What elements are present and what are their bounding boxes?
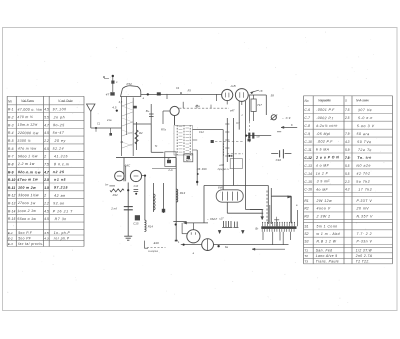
svg-text:82o.o.m ½w: 82o.o.m ½w [18, 170, 41, 174]
svg-text:S3: S3 [304, 240, 308, 244]
svg-text:4 o MF: 4 o MF [316, 164, 330, 168]
svg-text:V̶a̶l̶ E̶v̶n̶s: V̶a̶l̶ E̶v̶n̶s [21, 99, 34, 103]
svg-text:C12: C12 [199, 130, 204, 134]
svg-text:4.5: 4.5 [44, 108, 49, 112]
svg-text:4.7: 4.7 [44, 123, 49, 127]
svg-text:4.5: 4.5 [44, 131, 49, 135]
svg-text:56oo 1 ½w: 56oo 1 ½w [18, 154, 38, 158]
svg-text:R-12: R-12 [8, 194, 16, 198]
svg-text:97,100: 97,100 [53, 107, 67, 111]
svg-text:E16: E16 [154, 241, 160, 245]
svg-text:2: 2 [43, 194, 46, 198]
svg-text:R-6: R-6 [8, 147, 14, 151]
svg-text:fac tal provis.: fac tal provis. [18, 242, 43, 246]
svg-text:C10: C10 [276, 158, 282, 162]
svg-text:+DR: +DR [219, 164, 224, 167]
svg-text:72a Te: 72a Te [358, 148, 372, 152]
svg-text:R.B 1 2 W: R.B 1 2 W [317, 240, 337, 244]
svg-text:4.7: 4.7 [43, 170, 49, 174]
svg-text:n2 25: n2 25 [53, 170, 65, 174]
svg-text:1o- ph.P: 1o- ph.P [54, 231, 71, 235]
svg-text:4.5: 4.5 [44, 209, 49, 213]
svg-text:← C 9: ← C 9 [282, 116, 291, 120]
svg-text:S2: S2 [304, 232, 308, 236]
svg-text:2n0 2-7A: 2n0 2-7A [355, 254, 373, 258]
svg-text:C-15: C-15 [304, 180, 312, 184]
svg-text:470 m ½: 470 m ½ [17, 115, 33, 119]
svg-text:3 5 mF: 3 5 mF [317, 179, 331, 183]
svg-text:2W 12w: 2W 12w [316, 199, 333, 203]
svg-text:R13: R13 [180, 191, 186, 195]
svg-text:41.315: 41.315 [54, 154, 68, 158]
svg-text:B+: B+ [146, 109, 150, 113]
svg-text:R6: R6 [197, 167, 201, 171]
svg-text:5.5: 5.5 [345, 172, 350, 176]
svg-text:San. Fed: San. Fed [316, 249, 333, 253]
svg-text:5oo P.F: 5oo P.F [18, 231, 33, 235]
svg-text:6 5 MA: 6 5 MA [316, 148, 330, 152]
svg-text:5·oo 3 V: 5·oo 3 V [357, 124, 375, 128]
svg-text:P.33T V: P.33T V [357, 199, 373, 203]
svg-text:7.7· 2 2: 7.7· 2 2 [357, 232, 373, 236]
svg-text:C-12: C-12 [304, 156, 312, 160]
svg-text:2-ta: 2-ta [106, 118, 112, 122]
svg-text:2.2: 2.2 [43, 139, 49, 143]
svg-text:R2: R2 [304, 207, 308, 211]
svg-text:7.5: 7.5 [345, 108, 350, 112]
svg-text:17 7h2: 17 7h2 [358, 188, 372, 192]
svg-text:C-14: C-14 [304, 172, 312, 176]
svg-text:2.3: 2.3 [344, 180, 350, 184]
svg-text:2.2: 2.2 [43, 202, 49, 206]
svg-text:47,000 o. ½w: 47,000 o. ½w [18, 108, 43, 112]
svg-text:R-14: R-14 [8, 209, 16, 213]
svg-text:w-wapwa: w-wapwa [148, 250, 159, 253]
svg-text:56oo o 1w: 56oo o 1w [17, 217, 36, 221]
svg-text:7.5·: 7.5· [345, 132, 351, 136]
svg-text:5.5·: 5.5· [345, 148, 351, 152]
svg-text:R-7: R-7 [8, 155, 14, 159]
svg-text:47a: 47a [195, 104, 200, 108]
svg-text:6.5: 6.5 [44, 147, 49, 151]
svg-text:42 an: 42 an [54, 194, 66, 198]
svg-text:Tn. tre: Tn. tre [357, 156, 372, 160]
svg-text:S: S [345, 99, 347, 103]
svg-text:R-15: R-15 [8, 217, 16, 221]
svg-text:1ooo 2 1w: 1ooo 2 1w [17, 209, 36, 213]
svg-text:4-2u½ corn: 4-2u½ corn [316, 124, 338, 128]
svg-text:T2: T2 [304, 254, 308, 258]
svg-text:R1: R1 [304, 199, 308, 203]
svg-text:R-5: R-5 [8, 139, 14, 143]
svg-text:R14: R14 [148, 224, 154, 228]
svg-text:V̶a̶p̶a̶c̶i̶t̶o: V̶a̶p̶a̶c̶i̶t̶o [318, 99, 331, 103]
svg-text:E-2: E-2 [8, 237, 13, 241]
svg-text:R12: R12 [113, 193, 119, 197]
svg-text:Lano Alve 9: Lano Alve 9 [316, 254, 338, 258]
svg-text:2 o o P O N: 2 o o P O N [315, 155, 339, 159]
svg-text:Trans. Paule: Trans. Paule [316, 260, 339, 264]
svg-text:c8: c8 [260, 89, 263, 93]
svg-text:.002 P.F: .002 P.F [317, 140, 333, 144]
svg-text:33ooo 1½w: 33ooo 1½w [18, 193, 39, 197]
svg-text:97.215: 97.215 [54, 186, 68, 190]
svg-text:R3: R3 [304, 214, 308, 218]
svg-text:C-6: C-6 [304, 108, 310, 112]
svg-text:4.5: 4.5 [44, 217, 49, 221]
svg-text:2.5: 2.5 [344, 116, 350, 120]
svg-text:5.5: 5.5 [345, 164, 350, 168]
svg-text:R16: R16 [202, 167, 207, 171]
svg-text:8o-25: 8o-25 [53, 123, 65, 127]
svg-text:.05 Mpl: .05 Mpl [316, 132, 330, 136]
svg-text:C-13: C-13 [304, 164, 312, 168]
svg-text:T2 T22.: T2 T22. [356, 260, 370, 264]
svg-text:20 mV: 20 mV [356, 207, 370, 211]
svg-text:5o 7h2: 5o 7h2 [356, 180, 370, 184]
svg-text:47o m ½w: 47o m ½w [18, 147, 37, 151]
svg-text:4ooo V: 4ooo V [317, 207, 331, 211]
svg-text:6V6: 6V6 [218, 185, 224, 189]
svg-text:52.24: 52.24 [53, 147, 65, 151]
svg-text:R-11: R-11 [8, 186, 15, 190]
svg-text:2 3W 2: 2 3W 2 [316, 214, 331, 218]
svg-text:w 1 m - Abd: w 1 m - Abd [317, 232, 340, 236]
svg-text:.0002 P.t: .0002 P.t [316, 116, 334, 120]
svg-text:2.2 m 1w: 2.2 m 1w [17, 162, 35, 166]
svg-text:27ooo 1w: 27ooo 1w [17, 201, 36, 205]
svg-text:R-10: R-10 [8, 178, 16, 182]
svg-text:T3: T3 [304, 260, 308, 264]
svg-text:.0001 P.F: .0001 P.F [316, 108, 335, 112]
svg-text:42 7h2: 42 7h2 [356, 172, 370, 176]
svg-text:b+: b+ [105, 183, 109, 187]
svg-text:10m.a 12w: 10m.a 12w [18, 123, 38, 127]
svg-text:C13: C13 [134, 185, 139, 188]
svg-text:c8: c8 [257, 135, 260, 139]
svg-text:R-4: R-4 [8, 131, 14, 135]
svg-text:R-2: R-2 [8, 116, 14, 120]
svg-text:P 16 21 T: P 16 21 T [53, 209, 73, 213]
svg-text:R7a: R7a [161, 128, 166, 132]
svg-text:E-3: E-3 [8, 242, 13, 246]
svg-text:4.5: 4.5 [112, 106, 117, 110]
svg-text:47: 47 [106, 92, 110, 96]
svg-text:4,5: 4,5 [119, 100, 123, 104]
svg-text:R-9: R-9 [8, 170, 14, 174]
svg-text:C-9: C-9 [304, 132, 310, 136]
svg-text:R2: R2 [139, 131, 143, 135]
svg-text:c17: c17 [219, 217, 224, 221]
svg-text:R-13: R-13 [8, 202, 16, 206]
svg-text:C7: C7 [236, 121, 240, 125]
svg-text:R-3: R-3 [8, 123, 14, 127]
svg-text:5oo PF: 5oo PF [18, 237, 32, 241]
svg-text:V̶ a̶d̶ O̶s̶t̶o: V̶ a̶d̶ O̶s̶t̶o [58, 99, 73, 103]
svg-text:2n ph: 2n ph [53, 115, 66, 119]
svg-text:n1 n5: n1 n5 [54, 178, 66, 182]
svg-text:5-0 e.n: 5-0 e.n [358, 116, 373, 120]
svg-text:4.5: 4.5 [44, 231, 49, 235]
svg-text:a47: a47 [230, 109, 235, 113]
svg-text:T1: T1 [304, 249, 308, 253]
svg-text:50 TVe: 50 TVe [357, 140, 371, 144]
svg-text:P-33n V: P-33n V [357, 240, 373, 244]
svg-text:R-1: R-1 [8, 108, 14, 112]
svg-text:5.5: 5.5 [44, 116, 49, 120]
svg-text:ror ph.P: ror ph.P [54, 237, 70, 241]
svg-text:1/2 3T.W: 1/2 3T.W [356, 249, 373, 253]
svg-text:100 m 2w: 100 m 2w [18, 186, 36, 190]
svg-text:S1: S1 [304, 225, 308, 229]
svg-text:307 Ve: 307 Ve [358, 108, 372, 112]
svg-text:R-8: R-8 [8, 162, 14, 166]
svg-text:717: 717 [257, 103, 262, 107]
svg-text:47oo m 1w: 47oo m 1w [16, 177, 38, 181]
svg-text:6AC: 6AC [125, 164, 132, 168]
svg-text:8 n.c.m: 8 n.c.m [54, 162, 69, 166]
svg-text:N0 a2e: N0 a2e [356, 164, 371, 168]
svg-text:5o-47: 5o-47 [53, 131, 65, 135]
svg-text:4o MF: 4o MF [316, 188, 328, 192]
svg-text:R7 3n: R7 3n [55, 217, 67, 221]
svg-text:220000 ½w: 220000 ½w [17, 131, 39, 135]
svg-text:7.5: 7.5 [44, 162, 49, 166]
svg-text:C-16: C-16 [304, 188, 312, 192]
svg-text:1.5: 1.5 [44, 186, 49, 190]
svg-text:Inpuyler c.r: Inpuyler c.r [218, 168, 230, 171]
svg-text:N.35T V: N.35T V [357, 214, 374, 218]
svg-text:20 ey: 20 ey [54, 139, 66, 143]
svg-text:A.B: A.B [230, 84, 236, 88]
svg-text:50 ara: 50 ara [357, 132, 370, 136]
svg-text:← 6SA7: ← 6SA7 [207, 217, 218, 221]
svg-text:E-1: E-1 [8, 231, 13, 235]
svg-text:4.3: 4.3 [44, 237, 49, 241]
svg-text:C-8: C-8 [304, 124, 310, 128]
svg-text:C15: C15 [133, 222, 139, 226]
svg-text:P.M: P.M [127, 82, 132, 86]
svg-text:2.5: 2.5 [43, 178, 49, 182]
svg-text:No: No [8, 99, 12, 103]
svg-text:4.3: 4.3 [345, 140, 350, 144]
svg-text:N̶ A̶ s̶o̶l̶.̶v: N̶ A̶ s̶o̶l̶.̶v [356, 99, 369, 103]
svg-text:1o 2 F: 1o 2 F [316, 172, 329, 176]
svg-text:4.3: 4.3 [345, 188, 350, 192]
svg-text:3300 ½: 3300 ½ [17, 139, 31, 143]
svg-text:C-7: C-7 [304, 116, 310, 120]
svg-text:C-10: C-10 [304, 140, 312, 144]
svg-text:2: 2 [43, 155, 46, 159]
svg-text:C-11: C-11 [304, 148, 311, 152]
svg-text:7.5·: 7.5· [345, 156, 351, 160]
svg-text:5m 1 Conn: 5m 1 Conn [317, 225, 338, 229]
svg-text:58: 58 [271, 94, 275, 98]
svg-text:52.an: 52.an [53, 201, 65, 205]
svg-text:No: No [305, 99, 309, 103]
